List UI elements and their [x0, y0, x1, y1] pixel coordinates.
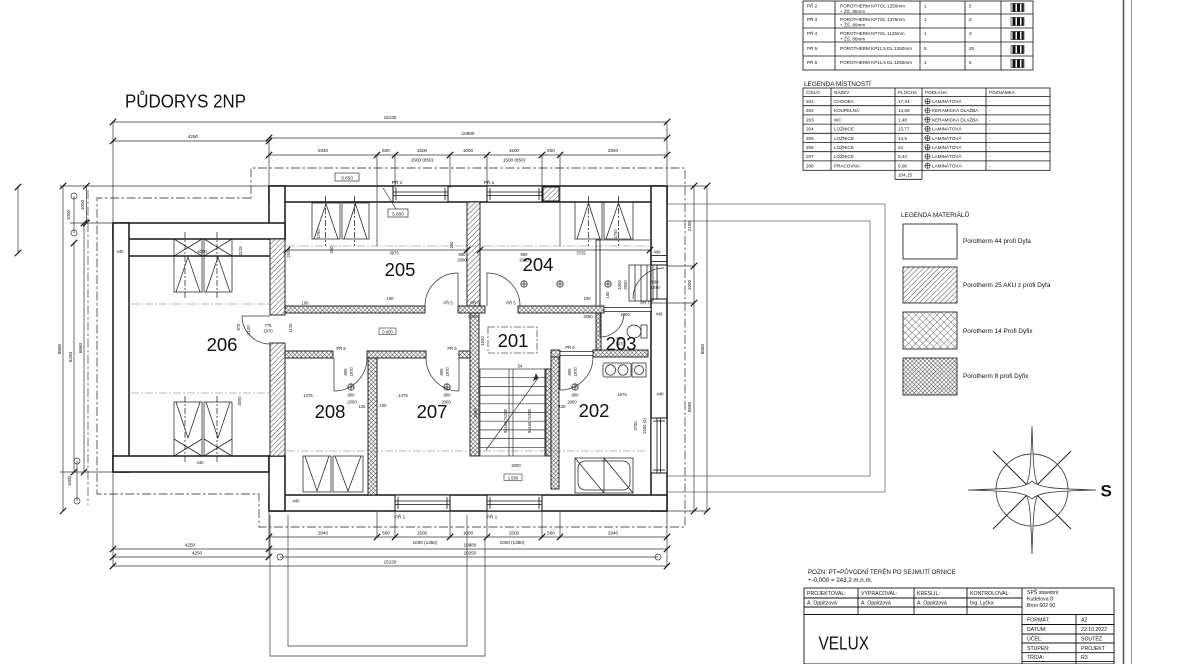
svg-text:9x166 7x280: 9x166 7x280: [503, 408, 508, 433]
svg-text:KONTROLOVAL:: KONTROLOVAL:: [970, 591, 1010, 597]
window PR1 south east: [487, 495, 542, 511]
door room204: [487, 273, 520, 306]
svg-text:150: 150: [605, 291, 610, 299]
svg-text:1475: 1475: [398, 393, 408, 398]
door room206: [242, 316, 270, 344]
svg-text:775: 775: [265, 323, 273, 328]
wall: main east exterior: [651, 186, 667, 511]
svg-text:1.500: 1.500: [508, 475, 519, 480]
wing ledge line north: [129, 255, 270, 257]
roof overhang dash-dot outline: [97, 168, 685, 527]
bottom dim chain row: [269, 536, 667, 538]
svg-text:1,48: 1,48: [898, 117, 907, 122]
svg-text:A. Oppitzová: A. Oppitzová: [807, 601, 837, 607]
svg-text:LEGENDA MATERIÁLŮ: LEGENDA MATERIÁLŮ: [901, 210, 969, 219]
roof window pair room205: [312, 203, 340, 239]
top dim row 15130: [113, 121, 667, 123]
svg-text:1000: 1000: [463, 148, 474, 153]
svg-text:100: 100: [584, 296, 592, 301]
svg-text:2940: 2940: [318, 148, 329, 153]
svg-text:440: 440: [197, 460, 205, 465]
svg-text:6860: 6860: [78, 342, 83, 353]
interior dim labels: [117, 249, 665, 504]
wall: stairwell east: [545, 369, 551, 456]
compass east-west spindle: [968, 481, 1096, 499]
svg-text:LOŽNICE: LOŽNICE: [834, 143, 854, 150]
svg-text:4000: 4000: [197, 249, 207, 254]
dim labels bottom: [185, 531, 619, 565]
top dim chain row: [269, 154, 667, 156]
svg-text:+-0,000 = 243,2 m.n.m.: +-0,000 = 243,2 m.n.m.: [808, 577, 873, 584]
svg-text:5.800: 5.800: [392, 212, 404, 217]
svg-text:Porotherm 44 profi Dyfa: Porotherm 44 profi Dyfa: [963, 238, 1031, 245]
terrace outer outline: [667, 204, 885, 492]
svg-text:800: 800: [343, 368, 348, 376]
bottom dim row 15130: [113, 565, 667, 567]
roof window pair wing south: [174, 402, 202, 456]
dim labels top: [188, 115, 619, 163]
svg-text:LAMINÁTOVÁ: LAMINÁTOVÁ: [932, 144, 962, 150]
lower floor outline below plan: [270, 515, 485, 656]
svg-text:PŘ 2: PŘ 2: [807, 2, 818, 9]
svg-text:900: 900: [444, 393, 452, 398]
svg-text:R3: R3: [1081, 655, 1088, 661]
material swatch Porotherm 14: [903, 312, 957, 349]
svg-text:A. Oppitzová: A. Oppitzová: [917, 601, 947, 607]
svg-text:100: 100: [302, 301, 310, 306]
window room202 east: [651, 418, 667, 473]
svg-text:800: 800: [439, 368, 444, 376]
wall: wing north exterior: [113, 223, 285, 239]
wall: hall partition room204: [596, 240, 600, 306]
door room207: [426, 358, 459, 391]
svg-text:PŘ 4: PŘ 4: [807, 29, 818, 36]
svg-text:1500 (850): 1500 (850): [411, 158, 434, 163]
svg-text:POROTHERM KP7OL 1125mm: POROTHERM KP7OL 1125mm: [840, 31, 905, 36]
svg-text:POROTHERM KP7OL 1250mm: POROTHERM KP7OL 1250mm: [840, 4, 905, 9]
svg-text:A2: A2: [1081, 618, 1087, 624]
svg-text:250: 250: [329, 246, 334, 254]
room201 dash-dot label box: [488, 327, 537, 353]
svg-text:207: 207: [806, 154, 814, 159]
svg-text:PŘ 5: PŘ 5: [443, 301, 453, 306]
svg-text:PŘ 6: PŘ 6: [470, 301, 480, 306]
svg-text:PLOCHA: PLOCHA: [898, 90, 918, 95]
svg-text:1000: 1000: [67, 475, 72, 486]
wall: AKU divider wing/main upper: [270, 239, 285, 315]
svg-text:S: S: [1101, 482, 1112, 501]
door terrace: [633, 268, 664, 299]
wall: corridor north opening PR7: [604, 308, 651, 312]
knee-wall dash line lower rooms: [287, 450, 646, 452]
level box 0.000 corridor: [379, 328, 396, 335]
svg-text:KOUPELNA: KOUPELNA: [834, 108, 860, 113]
room number labels: [207, 254, 637, 422]
svg-text:800: 800: [617, 336, 625, 341]
svg-text:1575: 1575: [617, 392, 627, 397]
svg-text:2000: 2000: [441, 400, 451, 405]
svg-text:2000: 2000: [511, 463, 521, 468]
wall: corridor north seg2: [458, 306, 485, 313]
knee-wall dash line upper rooms: [287, 245, 650, 247]
svg-text:1000 (1350): 1000 (1350): [413, 540, 438, 545]
svg-text:15130: 15130: [384, 115, 397, 120]
svg-text:17,34: 17,34: [898, 99, 910, 104]
svg-text:900: 900: [652, 280, 660, 285]
svg-text:6250: 6250: [68, 351, 73, 362]
svg-text:9,06: 9,06: [898, 163, 907, 168]
interior top room dims: [287, 249, 650, 251]
svg-text:PŘ 5: PŘ 5: [807, 44, 818, 51]
svg-text:125: 125: [359, 404, 367, 409]
dim labels right rotated: [687, 220, 705, 412]
svg-text:3250: 3250: [583, 314, 593, 319]
compass diagonals: [993, 451, 1071, 529]
roof window pair room208: [303, 456, 331, 492]
svg-text:1000: 1000: [687, 279, 692, 290]
terrace inner outline: [667, 221, 870, 476]
svg-text:LOŽNICE: LOŽNICE: [834, 125, 854, 132]
svg-text:125: 125: [559, 404, 567, 409]
svg-text:1600: 1600: [480, 336, 485, 346]
svg-text:4250: 4250: [192, 551, 203, 556]
knee-wall dash line wing lower: [131, 392, 269, 394]
door room202: [560, 357, 593, 390]
east wall break lines: [651, 255, 667, 257]
svg-text:PŘ 6: PŘ 6: [565, 345, 575, 350]
svg-text:2100: 2100: [246, 325, 251, 335]
svg-text:440: 440: [657, 392, 665, 397]
door PR labels: [336, 301, 650, 352]
interior dim labels rotated: [236, 229, 647, 434]
svg-text:PRACOVNA: PRACOVNA: [834, 163, 861, 168]
svg-text:1400: 1400: [620, 312, 630, 317]
lintel table top right: [803, 1, 1033, 70]
svg-text:VELUX: VELUX: [819, 633, 870, 654]
svg-text:LAMINÁTOVÁ: LAMINÁTOVÁ: [932, 162, 962, 168]
svg-text:LAMINÁTOVÁ: LAMINÁTOVÁ: [932, 153, 962, 159]
svg-text:LAMINÁTOVÁ: LAMINÁTOVÁ: [932, 135, 962, 141]
svg-text:3700: 3700: [633, 421, 638, 431]
svg-text:500: 500: [382, 148, 390, 153]
svg-text:KERAMICKÁ DLAŽBA: KERAMICKÁ DLAŽBA: [932, 115, 979, 122]
roof window pair room204: [575, 202, 602, 239]
svg-text:900: 900: [459, 252, 467, 257]
window PR1 north east: [487, 186, 542, 202]
knee-wall dash line wing upper: [131, 303, 269, 305]
svg-text:205: 205: [385, 259, 416, 280]
svg-text:1750: 1750: [316, 229, 321, 239]
wall: room202/203 divider: [593, 350, 648, 357]
svg-text:KERAMICKÁ DLAŽBA: KERAMICKÁ DLAŽBA: [932, 106, 979, 113]
svg-text:5: 5: [969, 60, 972, 65]
svg-text:875: 875: [236, 323, 241, 331]
dim labels left rotated: [57, 199, 85, 486]
svg-text:201: 201: [806, 99, 814, 104]
svg-text:1970: 1970: [650, 285, 660, 290]
svg-text:4250: 4250: [185, 543, 196, 548]
svg-text:SPŠ stavební: SPŠ stavební: [1027, 589, 1059, 596]
svg-text:0.000: 0.000: [382, 329, 393, 334]
wall: stairwell west: [470, 313, 479, 456]
floor type circle icons: [925, 99, 930, 169]
window labels PR1: [392, 178, 498, 521]
svg-text:1970: 1970: [263, 329, 273, 334]
sheet border line outer: [1131, 0, 1133, 664]
svg-text:2940: 2940: [608, 148, 619, 153]
svg-text:4250: 4250: [188, 134, 199, 139]
svg-text:PŮDORYS 2NP: PŮDORYS 2NP: [125, 91, 246, 112]
bottom dim row 10880/4250: [113, 548, 667, 550]
svg-text:10880: 10880: [464, 543, 477, 548]
svg-text:2190: 2190: [687, 220, 692, 231]
svg-text:440: 440: [117, 249, 125, 254]
toilet room203: [641, 325, 647, 338]
material swatch Porotherm 25 AKU: [903, 267, 957, 303]
svg-text:PROJEKT: PROJEKT: [1081, 646, 1106, 652]
material swatch Porotherm 8: [903, 358, 957, 395]
wall: room203 west: [596, 313, 601, 350]
compass north-south spindle: [1023, 426, 1041, 554]
svg-text:1000: 1000: [617, 280, 622, 290]
svg-text:104,15: 104,15: [898, 173, 912, 178]
svg-text:PŘ 5: PŘ 5: [336, 346, 346, 351]
washbasin unit room202: [603, 363, 631, 377]
svg-text:8880: 8880: [57, 343, 62, 354]
svg-text:22.10.2022: 22.10.2022: [1081, 627, 1107, 633]
right dim verticals: [693, 186, 695, 511]
svg-text:25: 25: [969, 46, 975, 51]
svg-text:9,44: 9,44: [898, 154, 907, 159]
svg-text:3000: 3000: [237, 396, 242, 406]
dim end circles: [71, 193, 661, 560]
svg-text:1500: 1500: [417, 531, 428, 536]
svg-text:13,77: 13,77: [898, 127, 910, 132]
svg-text:202: 202: [579, 400, 610, 421]
washing machine room202: [632, 363, 646, 377]
svg-text:800: 800: [567, 368, 572, 376]
svg-text:TŘÍDA:: TŘÍDA:: [1027, 653, 1044, 661]
staircase: [480, 369, 546, 456]
svg-text:2400: 2400: [473, 408, 478, 418]
svg-text:POROTHERM KP11.5 DL 1250mm: POROTHERM KP11.5 DL 1250mm: [840, 46, 912, 51]
wall: main south exterior: [269, 495, 667, 511]
svg-text:NÁZEV: NÁZEV: [834, 89, 850, 95]
sheet border line inner: [1123, 0, 1125, 664]
svg-text:1375: 1375: [303, 393, 313, 398]
svg-text:LOŽNICE: LOŽNICE: [834, 152, 854, 159]
svg-text:440: 440: [654, 250, 662, 255]
svg-text:LEGENDA MÍSTNOSTÍ: LEGENDA MÍSTNOSTÍ: [804, 79, 871, 88]
secondary overhang dash-dot line left: [87, 190, 89, 505]
svg-text:1000: 1000: [66, 209, 71, 220]
svg-text:2000: 2000: [347, 400, 357, 405]
svg-text:Kudelova 8: Kudelova 8: [1027, 597, 1053, 603]
svg-text:202: 202: [806, 108, 814, 113]
terrace door east wall: [651, 265, 667, 299]
wall: room202 west: [551, 356, 559, 489]
svg-text:440: 440: [656, 312, 664, 317]
svg-text:A. Oppitzová: A. Oppitzová: [861, 601, 891, 607]
svg-text:206: 206: [806, 145, 814, 150]
svg-text:208: 208: [315, 401, 346, 422]
roof window pair wing north: [174, 239, 202, 292]
svg-text:Porotherm 8 profi Dyfix: Porotherm 8 profi Dyfix: [963, 373, 1029, 380]
svg-text:POZN: PT=PŮVODNÍ TERÉN PO SE: POZN: PT=PŮVODNÍ TERÉN PO SEJMUTÍ ORNICE: [808, 569, 956, 576]
svg-text:3: 3: [969, 31, 972, 36]
svg-text:14,56: 14,56: [898, 108, 910, 113]
svg-text:1750: 1750: [613, 229, 618, 239]
svg-text:1125: 1125: [288, 323, 293, 333]
svg-text:1970: 1970: [445, 367, 450, 377]
svg-text:LOŽNICE: LOŽNICE: [834, 134, 854, 141]
compass rose: [968, 426, 1096, 554]
svg-text:POROTHERM KP11.5 DL 1250mm: POROTHERM KP11.5 DL 1250mm: [840, 60, 912, 65]
level box 5.800: [388, 209, 408, 217]
svg-text:900: 900: [348, 393, 356, 398]
svg-text:WC: WC: [834, 117, 842, 122]
wall: wing south exterior: [113, 456, 269, 472]
svg-text:3.850: 3.850: [341, 176, 353, 181]
svg-text:1500: 1500: [509, 531, 520, 536]
door room208: [334, 358, 367, 391]
svg-text:1000: 1000: [463, 531, 474, 536]
svg-text:9x166 7x280: 9x166 7x280: [527, 408, 532, 433]
svg-text:Ing. Lyčka: Ing. Lyčka: [970, 601, 994, 607]
wall: room202 door opening: [560, 352, 593, 356]
wall: corridor north seg3: [518, 306, 604, 313]
svg-text:FORMÁT:: FORMÁT:: [1027, 617, 1050, 624]
svg-text:15130: 15130: [384, 560, 397, 565]
svg-text:14,5: 14,5: [898, 136, 907, 141]
svg-text:1970: 1970: [349, 367, 354, 377]
svg-text:ÚČEL:: ÚČEL:: [1027, 636, 1042, 643]
svg-text:KRESLIL:: KRESLIL:: [917, 591, 940, 597]
svg-text:2000: 2000: [519, 258, 529, 263]
svg-text:1: 1: [924, 17, 927, 22]
svg-text:3975: 3975: [389, 251, 399, 256]
svg-text:1: 1: [924, 4, 927, 9]
wall: main west upper exterior: [269, 186, 285, 239]
svg-text:STUPEŇ:: STUPEŇ:: [1027, 645, 1049, 652]
wall: room202 north west stub: [551, 350, 560, 357]
svg-text:1000: 1000: [80, 199, 85, 210]
svg-text:1500: 1500: [509, 148, 520, 153]
svg-text:208: 208: [806, 163, 814, 168]
door room203: [600, 313, 624, 337]
svg-text:250: 250: [449, 241, 454, 249]
svg-text:ČÍSLO: ČÍSLO: [806, 89, 820, 95]
svg-text:1970: 1970: [615, 342, 625, 347]
svg-text:POZNÁMKA: POZNÁMKA: [989, 89, 1016, 95]
wardrobe hall east: [629, 265, 653, 301]
svg-text:500: 500: [382, 531, 390, 536]
lintel icons: [1011, 4, 1024, 68]
svg-text:2500: 2500: [623, 280, 628, 290]
svg-text:Porotherm 14 Profi Dyfix: Porotherm 14 Profi Dyfix: [963, 328, 1033, 335]
window PR1 south west: [395, 495, 450, 511]
svg-text:10880: 10880: [462, 131, 475, 136]
svg-text:205: 205: [806, 136, 814, 141]
bottom dim row 10250: [280, 556, 658, 558]
svg-text:DATUM:: DATUM:: [1027, 627, 1047, 633]
svg-text:500: 500: [547, 148, 555, 153]
svg-text:24: 24: [898, 145, 904, 150]
svg-text:SOUTĚŽ: SOUTĚŽ: [1081, 635, 1102, 643]
svg-text:2125: 2125: [238, 246, 243, 256]
svg-text:1970: 1970: [573, 367, 578, 377]
svg-text:LAMINÁTOVÁ: LAMINÁTOVÁ: [932, 126, 962, 132]
svg-text:204: 204: [806, 127, 814, 132]
svg-text:+ ŽŠ, 80mm: + ŽŠ, 80mm: [840, 7, 865, 14]
leader line to 5.800: [383, 188, 396, 209]
wall: corridor north seg1: [285, 306, 425, 313]
wall: wing west exterior: [113, 223, 129, 472]
wall: step connector west: [269, 456, 285, 511]
svg-text:VYPRACOVAL:: VYPRACOVAL:: [861, 591, 897, 597]
svg-text:2000: 2000: [567, 400, 577, 405]
svg-text:500: 500: [547, 531, 555, 536]
circle-cross symbols at doors: [348, 281, 611, 390]
svg-text:Brno 602 00: Brno 602 00: [1027, 603, 1055, 609]
svg-text:2000: 2000: [457, 258, 467, 263]
wall: main north exterior: [269, 186, 667, 202]
svg-text:3725: 3725: [576, 251, 586, 256]
dimension chains: [18, 122, 708, 566]
svg-text:5: 5: [924, 46, 927, 51]
svg-text:900: 900: [572, 393, 580, 398]
door room205: [425, 273, 458, 306]
bathtub room202: [575, 458, 633, 493]
wall: corridor south seg1: [285, 351, 333, 358]
svg-text:206: 206: [207, 334, 238, 355]
svg-text:1500: 1500: [417, 148, 428, 153]
svg-text:PŘ 5: PŘ 5: [506, 301, 516, 306]
svg-text:PŘ 5: PŘ 5: [447, 346, 457, 351]
svg-text:54: 54: [518, 364, 523, 369]
svg-text:CHODBA: CHODBA: [834, 99, 855, 104]
door arcs: [242, 268, 664, 391]
svg-text:10250: 10250: [464, 551, 477, 556]
svg-text:2940: 2940: [318, 531, 329, 536]
wall: corridor south seg3: [459, 351, 470, 358]
level box 3.850 top: [335, 173, 359, 181]
svg-text:PROJEKTOVAL:: PROJEKTOVAL:: [807, 591, 846, 597]
svg-text:PŘ 6: PŘ 6: [807, 58, 818, 65]
svg-text:1000 (1350): 1000 (1350): [500, 540, 525, 545]
svg-text:8880: 8880: [700, 343, 705, 354]
svg-text:2400: 2400: [286, 248, 291, 258]
bottom extension lines: [113, 472, 667, 566]
window PR1 north west: [393, 186, 448, 202]
svg-text:+ ŽŠ, 80mm: + ŽŠ, 80mm: [840, 35, 865, 42]
svg-text:1500 (850): 1500 (850): [503, 158, 526, 163]
wall: partition room208/207: [368, 358, 377, 495]
svg-text:1: 1: [924, 31, 927, 36]
svg-text:1500 (0): 1500 (0): [642, 418, 647, 434]
svg-text:PODLAHA: PODLAHA: [925, 90, 948, 95]
wall: pier north wall dark: [543, 187, 559, 201]
svg-text:Porotherm 25 AKU z profi Dyfa: Porotherm 25 AKU z profi Dyfa: [963, 282, 1051, 289]
svg-text:203: 203: [806, 117, 814, 122]
svg-text:1: 1: [924, 60, 927, 65]
svg-text:201: 201: [498, 330, 529, 351]
svg-text:PŘ 7: PŘ 7: [640, 301, 650, 306]
level box 1.500 stairs: [504, 474, 522, 481]
material swatch Porotherm 44: [903, 224, 957, 259]
svg-text:100: 100: [387, 296, 395, 301]
top dim row 10880: [269, 137, 667, 139]
